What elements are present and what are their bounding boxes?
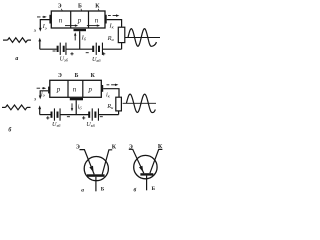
transistor structure box n-p-n (a): [51, 11, 105, 28]
wire bottom rail right segment (b): [99, 114, 119, 116]
output sine wave (b): [126, 94, 155, 112]
output sine wave (a): [128, 29, 156, 47]
svg-text:Э: Э: [76, 144, 80, 150]
base contact bar (b): [70, 98, 83, 100]
svg-text:p: p: [56, 86, 61, 94]
svg-text:Э: Э: [58, 73, 62, 79]
junction divider 1 (a): [70, 11, 72, 28]
wire emitter lead top (a): [40, 20, 50, 29]
wire source-to-rail arrow (b): [39, 108, 41, 114]
battery Ukb (b): [88, 108, 99, 120]
base contact bar (a): [74, 29, 87, 31]
VT1 emitter lead with npn arrow: [80, 150, 95, 175]
battery Ukb (a): [92, 43, 103, 55]
node emitter terminal arrow (b): [39, 96, 42, 100]
node emitter terminal arrow (a): [39, 28, 42, 32]
battery Ueb (b): [51, 108, 61, 120]
resistor Rn (a): [118, 27, 125, 42]
svg-text:Б: Б: [75, 73, 79, 79]
svg-text:Б: Б: [101, 187, 105, 193]
polarity minus Ueb (a): [53, 50, 56, 52]
svg-text:p: p: [77, 16, 82, 24]
svg-text:Э: Э: [129, 144, 133, 150]
VT2 emitter lead with pnp arrow: [129, 149, 144, 173]
wire input signal axis (top circuit source squiggle): [3, 38, 31, 43]
current arrow Ie (a): [37, 16, 45, 18]
svg-text:n: n: [59, 16, 63, 24]
wire input signal squiggle (b): [2, 105, 31, 110]
svg-text:К: К: [112, 144, 117, 150]
junction divider 2 (b): [82, 80, 84, 97]
polarity minus Ukb (b): [100, 116, 103, 118]
resistor Rn (b): [116, 97, 122, 111]
emitter contact bar (b): [48, 87, 50, 94]
svg-text:б: б: [133, 186, 136, 193]
current arrow ie (b): [37, 87, 45, 89]
svg-text:n: n: [73, 86, 77, 94]
VT1 base bar: [87, 174, 105, 177]
carrier flow arrow junction 2 (a): [87, 25, 98, 27]
carrier flow arrow junction 1 (a): [65, 25, 76, 27]
wire emitter lead top (b): [40, 91, 48, 96]
collector contact bar (b): [101, 85, 103, 92]
svg-text:а: а: [15, 56, 18, 62]
transistor structure box p-n-p (b): [50, 80, 102, 97]
polarity plus Ueb (b): [46, 116, 49, 119]
wire base lead (a): [79, 31, 81, 49]
output signal axis (b): [123, 102, 156, 104]
wire bottom rail left segment (b): [40, 114, 51, 116]
svg-text:К: К: [158, 144, 163, 150]
VT2 base bar: [140, 173, 153, 175]
svg-text:Б: Б: [78, 4, 82, 10]
polarity plus Ukb (a): [102, 52, 105, 55]
wire collector lead (b): [103, 89, 119, 98]
wire bottom rail right segment (a): [103, 48, 122, 50]
wire bottom rail left segment (a): [40, 48, 57, 50]
VT1 base lead: [95, 177, 97, 192]
transistor symbol VT2 circle (pnp): [134, 155, 157, 178]
polarity plus Ukb (b): [82, 116, 85, 119]
wire bottom rail mid segment (a): [66, 48, 92, 50]
svg-text:n: n: [95, 16, 99, 24]
wire resistor bottom lead (a): [121, 43, 123, 50]
polarity minus Ukb (a): [86, 52, 89, 54]
wire resistor bottom lead (b): [118, 111, 120, 115]
junction divider 1 (b): [67, 80, 69, 97]
emitter contact bar (a): [49, 15, 51, 24]
polarity minus Ueb (b): [67, 116, 70, 118]
wire base lead (b): [75, 100, 77, 114]
VT2 base lead: [146, 176, 148, 191]
svg-text:p: p: [87, 86, 92, 94]
battery Ueb (a): [57, 43, 67, 55]
current arrow ib (b): [71, 103, 73, 109]
polarity plus Ueb (a): [70, 52, 73, 55]
output signal axis (a): [125, 37, 160, 39]
svg-text:а: а: [81, 188, 84, 194]
VT2 collector lead: [150, 149, 163, 173]
VT1 collector lead: [102, 150, 112, 175]
wire bottom rail mid segment (b): [60, 114, 88, 116]
svg-text:Э: Э: [58, 4, 62, 10]
current arrow ik (b): [107, 84, 117, 86]
collector contact bar (a): [105, 15, 107, 24]
current arrow Ib (a): [74, 35, 76, 41]
wire source-to-rail arrow (a): [39, 41, 41, 49]
transistor symbol VT1 circle (npn): [84, 157, 108, 181]
current arrow Ik (a): [108, 15, 117, 17]
junction divider 2 (a): [88, 11, 90, 28]
wire collector lead (a): [107, 20, 122, 28]
svg-text:Б: Б: [152, 186, 156, 192]
